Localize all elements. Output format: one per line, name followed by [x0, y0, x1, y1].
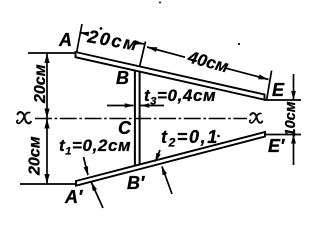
svg-text:A′: A′	[64, 187, 83, 207]
svg-text:B′: B′	[127, 173, 145, 193]
svg-text:20см: 20см	[27, 136, 44, 176]
svg-text:20см: 20см	[32, 64, 49, 104]
svg-text:B: B	[116, 68, 129, 88]
svg-text:E: E	[272, 80, 285, 100]
svg-text:C: C	[118, 118, 132, 138]
svg-text:10см: 10см	[283, 101, 299, 136]
svg-text:A: A	[58, 30, 72, 50]
svg-text:E′: E′	[268, 136, 285, 156]
